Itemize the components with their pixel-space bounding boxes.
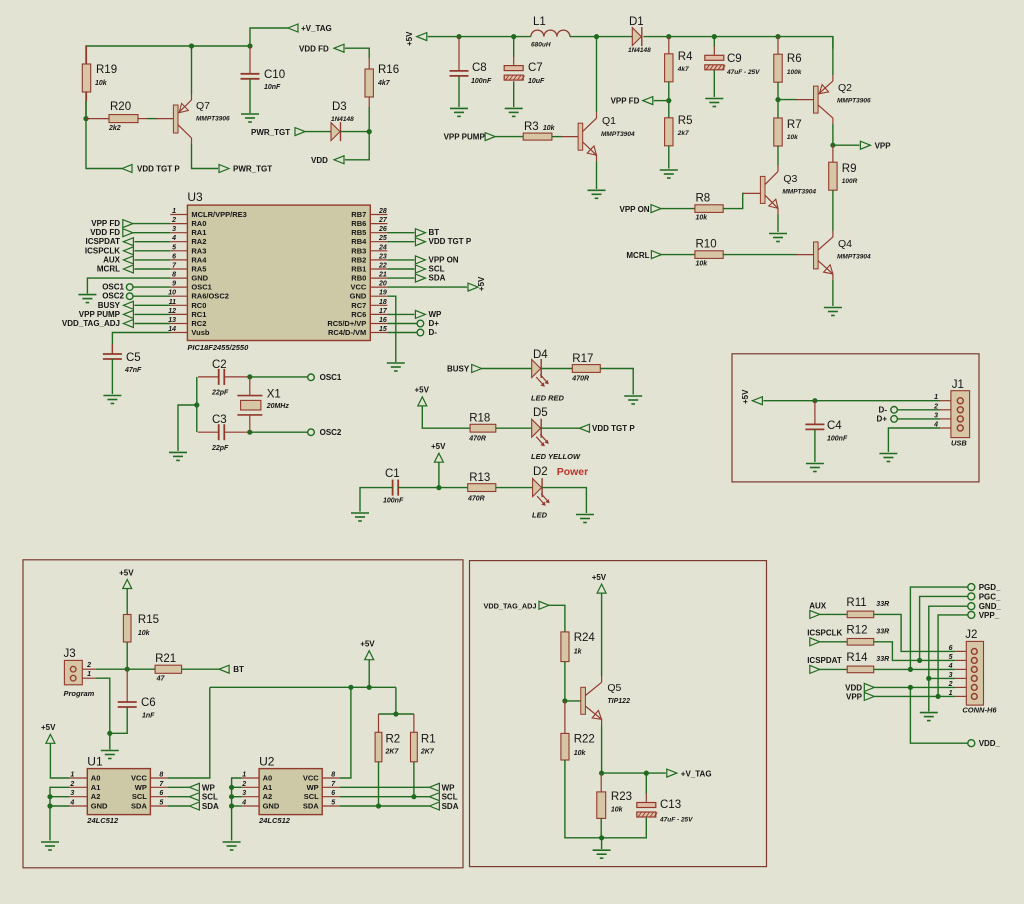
capacitor C1 xyxy=(392,480,394,496)
svg-text:47nF: 47nF xyxy=(124,367,142,374)
svg-text:C3: C3 xyxy=(212,414,227,426)
wire PGD_ to pin4 xyxy=(910,587,967,669)
wire +5V to R15 xyxy=(126,589,128,615)
svg-text:10k: 10k xyxy=(696,215,709,222)
ground under C4 xyxy=(806,463,824,465)
wire pin5 xyxy=(134,250,170,252)
node D- J1 xyxy=(891,407,898,414)
wire J1 pin4 to ground xyxy=(888,428,940,452)
wire ICSPCLK to R12 xyxy=(820,641,847,643)
wire Q3 emitter to ground xyxy=(777,214,779,232)
ground under C10 xyxy=(241,113,259,115)
svg-text:MMPT3906: MMPT3906 xyxy=(837,98,871,105)
svg-text:MMPT3904: MMPT3904 xyxy=(601,131,635,138)
svg-text:680uH: 680uH xyxy=(531,42,551,49)
svg-text:6: 6 xyxy=(949,645,953,652)
wire C2 left to gnd branch xyxy=(198,376,219,378)
wire C1 to R13 xyxy=(398,487,468,489)
svg-text:VPP ON: VPP ON xyxy=(429,255,459,264)
svg-text:LED YELLOW: LED YELLOW xyxy=(531,452,581,461)
transistor Q4 MMPT3904 xyxy=(814,242,819,269)
frame box USB xyxy=(732,354,979,482)
svg-text:CONN-H6: CONN-H6 xyxy=(962,706,997,715)
LED D4 red xyxy=(532,360,541,378)
wire R10 to Q4 base xyxy=(723,254,797,256)
pin 19 U3 (GND) xyxy=(370,295,387,297)
pin 4 J2 xyxy=(955,668,966,670)
junction R4/R5/VPP FD xyxy=(666,98,671,103)
svg-text:9: 9 xyxy=(172,281,176,288)
junction VPP xyxy=(830,143,835,148)
svg-text:AUX: AUX xyxy=(809,602,827,611)
ground under Q4 xyxy=(824,307,842,309)
svg-text:J1: J1 xyxy=(952,379,964,391)
svg-text:C13: C13 xyxy=(660,799,681,811)
capacitor C9 polarized xyxy=(705,55,724,60)
wire R2/R1 top bar xyxy=(379,713,414,715)
resistor R13 xyxy=(468,484,496,492)
svg-text:24LC512: 24LC512 xyxy=(258,816,291,825)
svg-text:TIP122: TIP122 xyxy=(607,698,630,705)
svg-text:33R: 33R xyxy=(876,601,889,608)
pin 16 U3 (RC5/D+/VP) xyxy=(370,323,387,325)
wire C10 to ground xyxy=(249,79,251,113)
flag PWR_TGT output xyxy=(219,165,229,173)
connector J2 CONN-H6 xyxy=(966,641,983,705)
svg-text:A1: A1 xyxy=(91,783,101,792)
svg-text:5: 5 xyxy=(331,800,335,807)
svg-text:R22: R22 xyxy=(574,734,595,746)
supply +5V bus xyxy=(365,651,374,660)
wire MCRL to R10 xyxy=(661,254,695,256)
svg-text:C4: C4 xyxy=(827,420,842,432)
transistor Q2 MMPT3906 xyxy=(814,86,819,113)
junction Q1 collector xyxy=(594,34,599,39)
wire C8 to ground xyxy=(458,76,460,107)
svg-text:5: 5 xyxy=(172,244,176,251)
svg-text:8: 8 xyxy=(172,272,176,279)
svg-text:R8: R8 xyxy=(696,193,711,205)
wire U2 address bus xyxy=(232,778,242,841)
svg-text:VPP FD: VPP FD xyxy=(611,97,640,106)
transistor Q5 TIP122 xyxy=(581,687,586,714)
svg-text:28: 28 xyxy=(378,208,387,215)
ground J1 pin4 xyxy=(879,453,897,455)
wire pin15 xyxy=(387,332,417,334)
wire pin4 xyxy=(134,241,170,243)
svg-text:MMPT3904: MMPT3904 xyxy=(837,254,871,261)
resistor R3 xyxy=(523,133,552,140)
ground left of C1 xyxy=(351,512,369,514)
ground under C5 xyxy=(103,395,121,397)
resistor R14 xyxy=(847,666,874,673)
wire VPP_ to pin1 xyxy=(938,615,968,697)
frame box eeprom xyxy=(23,560,463,868)
svg-text:R23: R23 xyxy=(611,791,632,803)
pin 5 J2 xyxy=(955,659,966,661)
flag BT eeprom xyxy=(219,665,229,673)
pin 1 U1 (A0) xyxy=(70,777,88,779)
wire U1 pin7 xyxy=(168,786,189,788)
svg-text:VDD_TAG_ADJ: VDD_TAG_ADJ xyxy=(484,602,537,611)
resistor R19 xyxy=(82,64,90,92)
svg-text:26: 26 xyxy=(378,226,387,233)
resistor R17 xyxy=(572,365,600,373)
wire pin13 xyxy=(134,323,170,325)
ground under C7 xyxy=(505,107,523,109)
wire R8 to Q3 base xyxy=(723,193,744,208)
junction R4 xyxy=(666,34,671,39)
svg-text:A0: A0 xyxy=(91,774,101,783)
resistor R11 xyxy=(847,611,874,618)
wire R20 to Q7 base xyxy=(147,118,157,120)
pin 8 U1 (VCC) xyxy=(150,777,168,779)
capacitor C13 polarized xyxy=(637,803,656,808)
svg-text:WP: WP xyxy=(307,783,319,792)
svg-text:10k: 10k xyxy=(787,134,798,141)
svg-text:17: 17 xyxy=(379,308,388,315)
svg-text:BT: BT xyxy=(429,228,440,237)
svg-text:VPP PUMP: VPP PUMP xyxy=(444,133,486,142)
svg-text:SDA: SDA xyxy=(303,802,319,811)
node OSC2 pin10 xyxy=(126,293,133,300)
svg-text:10k: 10k xyxy=(543,125,556,132)
junction C2/X1 xyxy=(247,374,252,379)
resistor R7 xyxy=(774,118,782,146)
svg-text:3: 3 xyxy=(949,672,953,679)
wire GND_ to pin3 and ground xyxy=(929,606,968,711)
pin 9 U3 (OSC1) xyxy=(170,286,187,288)
svg-text:RB1: RB1 xyxy=(351,265,366,274)
svg-text:+5V: +5V xyxy=(741,389,750,404)
capacitor C5 xyxy=(103,353,122,355)
wire D3 to R16 node xyxy=(341,131,370,133)
wire to ground J3 xyxy=(109,733,111,749)
resistor R1 xyxy=(411,732,418,762)
IC U2 24LC512 xyxy=(259,769,322,815)
svg-text:RC2: RC2 xyxy=(191,319,206,328)
wire R5 to ground xyxy=(668,146,670,169)
svg-text:J3: J3 xyxy=(64,648,76,660)
flag +5V top rail xyxy=(417,33,427,41)
wire top-left +V_TAG rail xyxy=(86,28,288,119)
svg-text:RA0: RA0 xyxy=(191,219,206,228)
svg-text:20: 20 xyxy=(378,281,387,288)
svg-text:+5V: +5V xyxy=(592,573,607,582)
wire pin23 xyxy=(387,259,414,261)
pin 4 J1 xyxy=(940,427,951,429)
flag +5V pin20 xyxy=(468,283,478,291)
wire D- to J1 pin2 xyxy=(897,409,940,411)
node OSC1 xyxy=(308,374,315,381)
svg-text:470R: 470R xyxy=(467,496,485,503)
svg-text:A2: A2 xyxy=(91,792,101,801)
wire pin8 GND xyxy=(87,278,170,294)
svg-text:22: 22 xyxy=(378,263,387,270)
wire pin16 xyxy=(387,323,417,325)
svg-text:4: 4 xyxy=(69,800,74,807)
wire R22 to bottom rail xyxy=(565,760,602,838)
svg-text:22pF: 22pF xyxy=(211,390,229,397)
svg-text:VPP ON: VPP ON xyxy=(620,205,650,214)
svg-text:RB5: RB5 xyxy=(351,228,366,237)
svg-text:U3: U3 xyxy=(187,190,203,204)
IC U1 24LC512 xyxy=(87,769,150,815)
flag VDD TGT P pin25 xyxy=(415,238,425,246)
junction +5V supply xyxy=(367,685,372,690)
wire U1 pin3 link xyxy=(50,796,70,798)
resistor R21 xyxy=(155,665,182,673)
svg-text:3: 3 xyxy=(242,790,246,797)
wire VDD_ to pin2 xyxy=(910,687,967,743)
wire U2 pin8 to bus xyxy=(340,687,351,778)
pin 13 U3 (RC2) xyxy=(170,323,187,325)
pin 2 J3 xyxy=(82,668,95,670)
wire PGC_ to pin5 xyxy=(920,596,968,660)
supply +5V for D5 xyxy=(418,397,427,406)
svg-text:OSC2: OSC2 xyxy=(102,292,124,301)
svg-text:R7: R7 xyxy=(787,119,802,131)
resistor R6 xyxy=(774,54,782,82)
svg-text:6: 6 xyxy=(331,790,335,797)
wire Q4 emitter to ground xyxy=(832,280,834,306)
wire R2 to SDA xyxy=(378,762,380,806)
pin 6 U1 (SCL) xyxy=(150,796,168,798)
node PGD_ xyxy=(968,584,975,591)
svg-text:ICSPCLK: ICSPCLK xyxy=(85,246,120,255)
svg-text:1: 1 xyxy=(934,394,938,401)
svg-text:MCLR/VPP/RE3: MCLR/VPP/RE3 xyxy=(191,210,246,219)
svg-text:R5: R5 xyxy=(678,115,693,127)
pin 3 J1 xyxy=(940,418,951,420)
junction +V_TAG/R23 xyxy=(599,771,604,776)
junction C3/X1 xyxy=(247,430,252,435)
wire R12 to J2 pin5 xyxy=(874,642,956,661)
wire +5V to R18 xyxy=(422,406,470,428)
svg-text:GND: GND xyxy=(191,274,208,283)
svg-text:MCRL: MCRL xyxy=(97,265,120,274)
pin 7 U2 (WP) xyxy=(322,786,340,788)
wire R24 to base node xyxy=(564,662,566,701)
junction U2 pin3 xyxy=(229,794,234,799)
svg-text:VDD FD: VDD FD xyxy=(90,228,120,237)
svg-text:RB4: RB4 xyxy=(351,237,367,246)
svg-text:L1: L1 xyxy=(533,16,546,28)
svg-text:15: 15 xyxy=(379,326,387,333)
pin 1 J1 xyxy=(940,400,951,402)
wire pin14 Vusb to C5 xyxy=(112,333,170,355)
wire pin9 xyxy=(133,286,170,288)
svg-text:R17: R17 xyxy=(572,353,593,365)
svg-text:33R: 33R xyxy=(876,629,889,636)
pin 23 U3 (RB2) xyxy=(370,259,387,261)
wire U1 pin6 xyxy=(168,796,189,798)
wire pin20 VCC to +5V xyxy=(387,286,467,288)
wire +5V down to C1/R13 node xyxy=(438,462,440,487)
wire VDD_TAG_ADJ to R24 xyxy=(549,605,565,632)
junction Q5 base/R22 xyxy=(562,698,567,703)
wire R19 bottom to R20/VDD TGT P xyxy=(86,101,122,169)
pin 1 J2 xyxy=(955,695,966,697)
svg-text:GND: GND xyxy=(91,802,108,811)
wire bus to R2/R1 xyxy=(395,687,397,714)
wire R23 to bottom rail xyxy=(600,818,602,837)
wire C4 to ground xyxy=(814,429,816,462)
ground after D2 xyxy=(576,514,594,516)
wire R17 to ground xyxy=(600,369,633,395)
flag SDA U2 xyxy=(429,802,439,810)
wire AUX to R11 xyxy=(820,613,847,615)
svg-text:3: 3 xyxy=(172,226,176,233)
flag VDD TGT P xyxy=(122,165,132,173)
wire D5 to VDD TGT P flag xyxy=(541,427,579,429)
supply +5V Q5 xyxy=(597,584,606,593)
wire +5V rail xyxy=(428,36,531,38)
pin 28 U3 (RB7) xyxy=(370,214,387,216)
wire Q1 collector to rail xyxy=(596,37,598,113)
svg-text:21: 21 xyxy=(378,272,387,279)
svg-text:23: 23 xyxy=(378,253,387,260)
junction bottom rail xyxy=(599,835,604,840)
wire +5V supply drop xyxy=(368,660,370,688)
transistor Q3 MMPT3904 xyxy=(760,176,765,203)
wire Q1 emitter to ground xyxy=(596,161,598,189)
junction U2 VCC xyxy=(348,685,353,690)
ground under Q1 xyxy=(588,189,606,191)
svg-text:A1: A1 xyxy=(263,783,273,792)
supply +5V U1 xyxy=(46,734,55,743)
svg-text:WP: WP xyxy=(429,310,443,319)
svg-text:100nF: 100nF xyxy=(383,498,404,505)
resistor R12 xyxy=(847,639,874,646)
pin 22 U3 (RB1) xyxy=(370,268,387,270)
svg-text:VDD_TAG_ADJ: VDD_TAG_ADJ xyxy=(62,319,120,328)
junction R6 xyxy=(775,34,780,39)
svg-text:R20: R20 xyxy=(110,101,131,113)
svg-text:MMPT3904: MMPT3904 xyxy=(782,189,816,196)
ground U1 xyxy=(41,841,59,843)
junction VDD_/pin2 xyxy=(908,685,913,690)
wire VPP FD flag to node xyxy=(654,100,669,102)
flag +V_TAG xyxy=(288,24,298,32)
pin 12 U3 (RC1) xyxy=(170,313,187,315)
wire R13 to D2 xyxy=(496,487,533,489)
IC U3 PIC18F2455/2550 xyxy=(187,205,370,340)
wire C7 to ground xyxy=(513,81,515,107)
svg-text:U1: U1 xyxy=(87,754,103,768)
pin 5 U2 (SDA) xyxy=(322,805,340,807)
svg-text:OSC1: OSC1 xyxy=(102,283,124,292)
svg-text:+5V: +5V xyxy=(360,640,375,649)
pin 2 U1 (A1) xyxy=(70,786,88,788)
svg-text:RC7: RC7 xyxy=(351,301,366,310)
svg-text:RC0: RC0 xyxy=(191,301,206,310)
junction R2/SDA xyxy=(376,803,381,808)
wire C1 left to ground xyxy=(360,488,393,512)
svg-text:1: 1 xyxy=(87,671,91,678)
svg-text:1nF: 1nF xyxy=(142,713,155,720)
svg-text:SCL: SCL xyxy=(442,793,458,802)
wire R9 to Q4 collector xyxy=(832,190,834,231)
svg-text:8: 8 xyxy=(159,772,163,779)
junction C6 gnd xyxy=(107,731,112,736)
wire VPP node to flag xyxy=(833,144,860,146)
svg-text:R10: R10 xyxy=(696,239,717,251)
pin 5 U1 (SDA) xyxy=(150,805,168,807)
svg-text:R15: R15 xyxy=(138,614,159,626)
junction C10 / rail xyxy=(247,43,252,48)
junction U2 pin2 xyxy=(229,785,234,790)
node PGC_ xyxy=(968,593,975,600)
svg-text:C6: C6 xyxy=(141,697,156,709)
flag VPP ON pin23 xyxy=(415,256,425,264)
svg-text:U2: U2 xyxy=(259,754,275,768)
svg-text:R2: R2 xyxy=(386,734,401,746)
wire pin10 xyxy=(133,295,170,297)
svg-text:GND: GND xyxy=(350,292,367,301)
LED D5 yellow xyxy=(532,419,541,437)
junction U2 pin4 xyxy=(229,803,234,808)
svg-text:R3: R3 xyxy=(524,121,539,133)
resistor R9 xyxy=(829,162,837,190)
svg-text:47uF - 25V: 47uF - 25V xyxy=(659,817,693,824)
svg-text:Vusb: Vusb xyxy=(191,328,209,337)
svg-text:1: 1 xyxy=(242,772,246,779)
wire rail L1 to D1 xyxy=(570,36,632,38)
svg-text:C5: C5 xyxy=(126,352,141,364)
svg-text:47uF - 25V: 47uF - 25V xyxy=(726,69,760,76)
pin 8 U2 (VCC) xyxy=(322,777,340,779)
svg-text:R12: R12 xyxy=(846,625,867,637)
svg-text:R24: R24 xyxy=(574,632,596,644)
pin 24 U3 (RB3) xyxy=(370,250,387,252)
svg-text:Q4: Q4 xyxy=(838,238,852,250)
wire rail D1 to Q2 emitter corner xyxy=(643,37,833,49)
svg-text:D4: D4 xyxy=(533,349,548,361)
wire pin12 xyxy=(134,313,170,315)
svg-text:Q5: Q5 xyxy=(607,682,621,694)
svg-text:VDD TGT P: VDD TGT P xyxy=(429,237,472,246)
flag VDD xyxy=(334,156,344,164)
node D- pin15 xyxy=(417,329,424,336)
resistor R20 xyxy=(109,115,138,123)
flag VPP xyxy=(860,141,870,149)
node D+ pin16 xyxy=(417,320,424,327)
wire Q7 emitter to rail xyxy=(191,46,193,94)
pin 1 J3 xyxy=(82,677,95,679)
svg-text:10k: 10k xyxy=(95,80,108,87)
svg-text:D5: D5 xyxy=(533,407,548,419)
svg-text:100k: 100k xyxy=(787,69,802,76)
junction U1 pin4 xyxy=(47,803,52,808)
pin 2 U2 (A1) xyxy=(242,786,260,788)
flag SCL U2 xyxy=(429,793,439,801)
wire pin17 xyxy=(387,313,414,315)
svg-text:BUSY: BUSY xyxy=(447,365,470,374)
svg-text:Q1: Q1 xyxy=(602,115,616,127)
svg-text:R11: R11 xyxy=(846,597,866,609)
pin 17 U3 (RC6) xyxy=(370,313,387,315)
svg-text:BUSY: BUSY xyxy=(98,301,121,310)
LED D2 power xyxy=(533,479,542,497)
wire C5 to ground xyxy=(111,359,113,394)
svg-text:2: 2 xyxy=(948,681,953,688)
svg-text:+5V: +5V xyxy=(41,723,56,732)
pin 25 U3 (RB4) xyxy=(370,241,387,243)
node D+ J1 xyxy=(891,416,898,423)
svg-text:RA4: RA4 xyxy=(191,255,207,264)
svg-text:R18: R18 xyxy=(469,413,490,425)
